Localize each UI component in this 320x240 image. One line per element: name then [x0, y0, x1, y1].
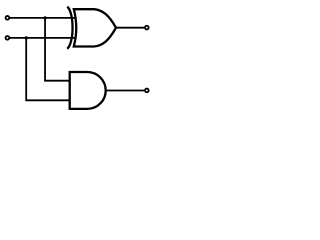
input terminal B: [6, 36, 10, 40]
wire B branch to AND input 2: [26, 38, 70, 100]
wire AND output: [106, 90, 145, 92]
wire B horizontal: [9, 37, 76, 39]
wire XOR output: [116, 27, 144, 29]
XOR gate U1 body: [74, 9, 116, 46]
input terminal A: [6, 16, 10, 20]
output terminal S: [145, 26, 149, 30]
junction A: [43, 16, 46, 19]
junction B: [25, 36, 28, 39]
wire A branch to AND input 1: [45, 18, 71, 81]
output terminal C: [145, 89, 149, 93]
XOR gate U1 input arc: [67, 7, 72, 49]
AND gate U2: [70, 72, 106, 109]
wire A horizontal: [9, 17, 76, 19]
